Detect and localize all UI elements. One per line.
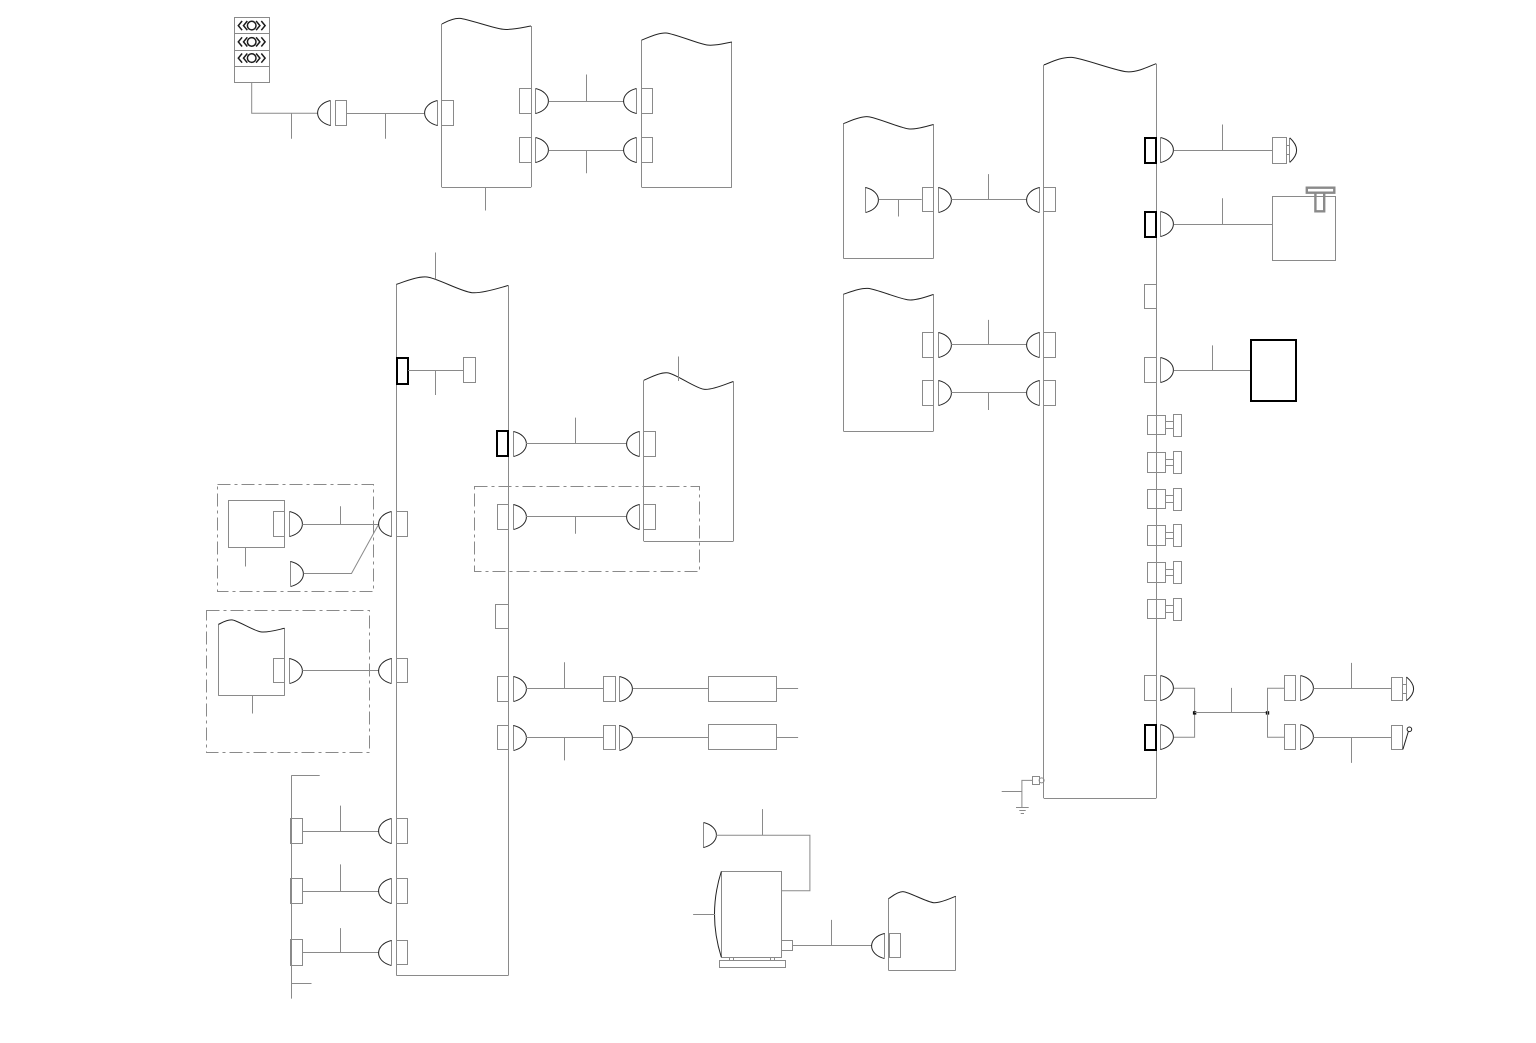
internal wire BR1 [408,370,464,372]
connector B3 left (from D2) [379,658,408,683]
tick [575,517,577,534]
wire rowA seg3 [776,688,798,690]
bus top stub [291,775,320,777]
connector B4 left row1 [627,431,656,456]
harness box B6 [843,288,933,431]
tick [898,200,900,217]
connector B7 left y199 [1027,187,1056,212]
motor with base [715,872,793,968]
wire rowB seg3 [776,737,798,739]
wire with diagonal from lone female [304,525,379,573]
wire rowA seg2 [633,688,709,690]
harness box B7 [1044,57,1157,798]
wire B6 row1 [951,344,1026,346]
B3 top stub [435,253,437,280]
tick [762,809,764,835]
wire motor to B8 [793,945,872,947]
stub below D1 box [245,548,247,567]
connector B8 left edge [872,933,901,959]
ground symbol [1016,808,1029,814]
tick [1212,345,1214,370]
wire to ring terminal [1313,737,1391,739]
bold male connector BR1 on B3 left edge [397,358,408,384]
junction dot A [1193,711,1196,714]
branch wire down [1268,713,1285,737]
connector B3 left y831 [379,819,408,844]
tick on lamp wire [291,113,293,139]
component box in D1 [229,501,285,548]
tick [1222,125,1224,151]
tick [340,928,342,952]
wire B1-B2 row1 [549,101,624,103]
shield sleeve rowB [709,725,777,750]
harness box B8 [888,892,955,971]
connector on B3 right edge in D3 [498,504,527,529]
harness box B3 [396,277,508,976]
connector B4 left row2 [627,504,656,529]
female connector lone in D1 [291,561,304,586]
inline pair rowB [604,725,633,751]
junction wire [1195,712,1268,714]
female connector lone (top) [704,823,717,848]
wire to relay box [1174,224,1273,226]
shield sleeve rowA [709,677,777,702]
T-key icon on relay box [1307,188,1335,212]
inline connector pair P1 [318,101,347,126]
inline pair upper branch [1285,676,1314,701]
tick [340,806,342,832]
connector B1 right row1 [520,89,549,114]
connector on D1 box edge [274,512,303,537]
connector B7 right y688 [1145,676,1174,701]
bullet terminal 1 [1273,138,1297,164]
lone male connector B7 right [1145,285,1157,309]
connector B1 right row2 [520,138,549,163]
inline pair rowA [604,677,633,702]
connector B7 right y370 [1145,358,1174,383]
joint connector pair y535 [1148,525,1182,547]
joint connector pair y609 [1148,599,1182,621]
wire y688 to junction [1174,688,1195,713]
connector B3 left (from D1) [379,512,408,537]
connector on D2 box edge [274,658,303,683]
connector B7 left y392 [1027,380,1056,405]
joint connector pair y462 [1148,452,1182,474]
connector B5 right edge [923,187,952,212]
tick row2 [586,150,588,173]
tick [831,920,833,946]
junction dot B [1266,711,1269,714]
connector B2 left row1 [624,89,653,114]
joint connector pair y572 [1148,562,1182,584]
wire y737 to junction [1174,713,1195,737]
wire rowB seg2 [633,737,709,739]
wire to motor [716,835,810,890]
bus bottom stub [291,983,311,985]
connector B6 right row1 [923,332,952,357]
wire in D3 [526,516,626,518]
ring terminal with lever [1392,726,1412,750]
grommet connector B7 left [1033,777,1045,785]
connector B3 left y952 [379,940,408,965]
B4 top stub [678,357,680,382]
bus wire y831 [302,831,379,833]
dash-dot enclosure D2 [207,611,370,753]
ground wire [1022,780,1033,807]
tick [988,320,990,345]
bold connector B7 right y150 [1145,138,1173,164]
wire to bullet terminal 2 [1313,688,1391,690]
tick [1351,737,1353,763]
bus male connector y891 [291,879,303,904]
ground branch stub [1002,791,1022,793]
tick on wire to B1 [385,113,387,139]
dash-dot enclosure D1 [218,485,374,592]
connector B3 right rowA [498,677,527,702]
lone male connector on B3 right edge [496,605,509,629]
wire B6 row2 [951,392,1026,394]
bold component box [1251,340,1296,401]
relay box [1273,197,1336,261]
joint connector pair y499 [1148,489,1182,511]
bullet terminal 2 [1392,677,1414,701]
tick [988,393,990,410]
lamp assembly (3-bulb unit) [235,18,270,83]
wire B1-B2 row2 [549,150,624,152]
wire rowA seg1 [526,688,604,690]
bus male connector y831 [291,819,303,844]
wire D1 to B3 [302,524,378,526]
bus vertical wire [291,776,293,999]
tick [1222,198,1224,224]
wire D2 to B3 [302,670,378,672]
wire B5 to B7 [951,199,1026,201]
tick [564,737,566,760]
bus wire y891 [302,891,379,893]
male rect terminal [464,358,476,383]
bus male connector y952 [291,940,303,966]
harness box B4 [644,373,734,542]
tick [564,662,566,689]
stub below D2 box [252,696,254,714]
tick [1351,663,1353,688]
dash-dot enclosure D3 [475,487,700,572]
torn component box in D2 [218,620,284,696]
connector B2 left row2 [624,138,653,163]
wire to bullet terminal [1174,150,1272,152]
connector B7 left y344 [1027,332,1056,357]
B1 bottom stub [485,187,487,210]
connector B6 right row2 [923,380,952,405]
harness box B2 [642,33,732,188]
tick on internal wire [435,370,437,395]
bold connector B7 right y737 [1145,725,1173,751]
bold connector BR2 on B3 right edge [497,431,526,457]
harness box B1 [442,18,532,187]
wire BR2 to B4 [526,443,626,445]
connector at B1 left edge [425,101,454,126]
connector B3 right rowB [498,725,527,751]
connector B3 left y891 [379,879,408,904]
harness box B5 [843,117,933,259]
bold connector B7 right y224 [1145,212,1173,238]
tick [340,864,342,891]
bus wire y952 [302,952,379,954]
branch wire up [1268,688,1285,713]
joint connector pair y425 [1148,415,1182,437]
wire rowB seg1 [526,737,604,739]
wire inside B5 [879,199,922,201]
wire P1 to box B1 [347,113,424,115]
tick [1231,688,1233,713]
tick row1 [586,75,588,102]
motor left stub [693,914,715,916]
tick [988,174,990,199]
inline pair lower branch [1285,725,1314,750]
wire to bold box [1174,370,1252,372]
tick [575,418,577,444]
female connector inside B5 [866,187,879,212]
wire lamp to inline connector [252,83,318,114]
tick [340,506,342,524]
